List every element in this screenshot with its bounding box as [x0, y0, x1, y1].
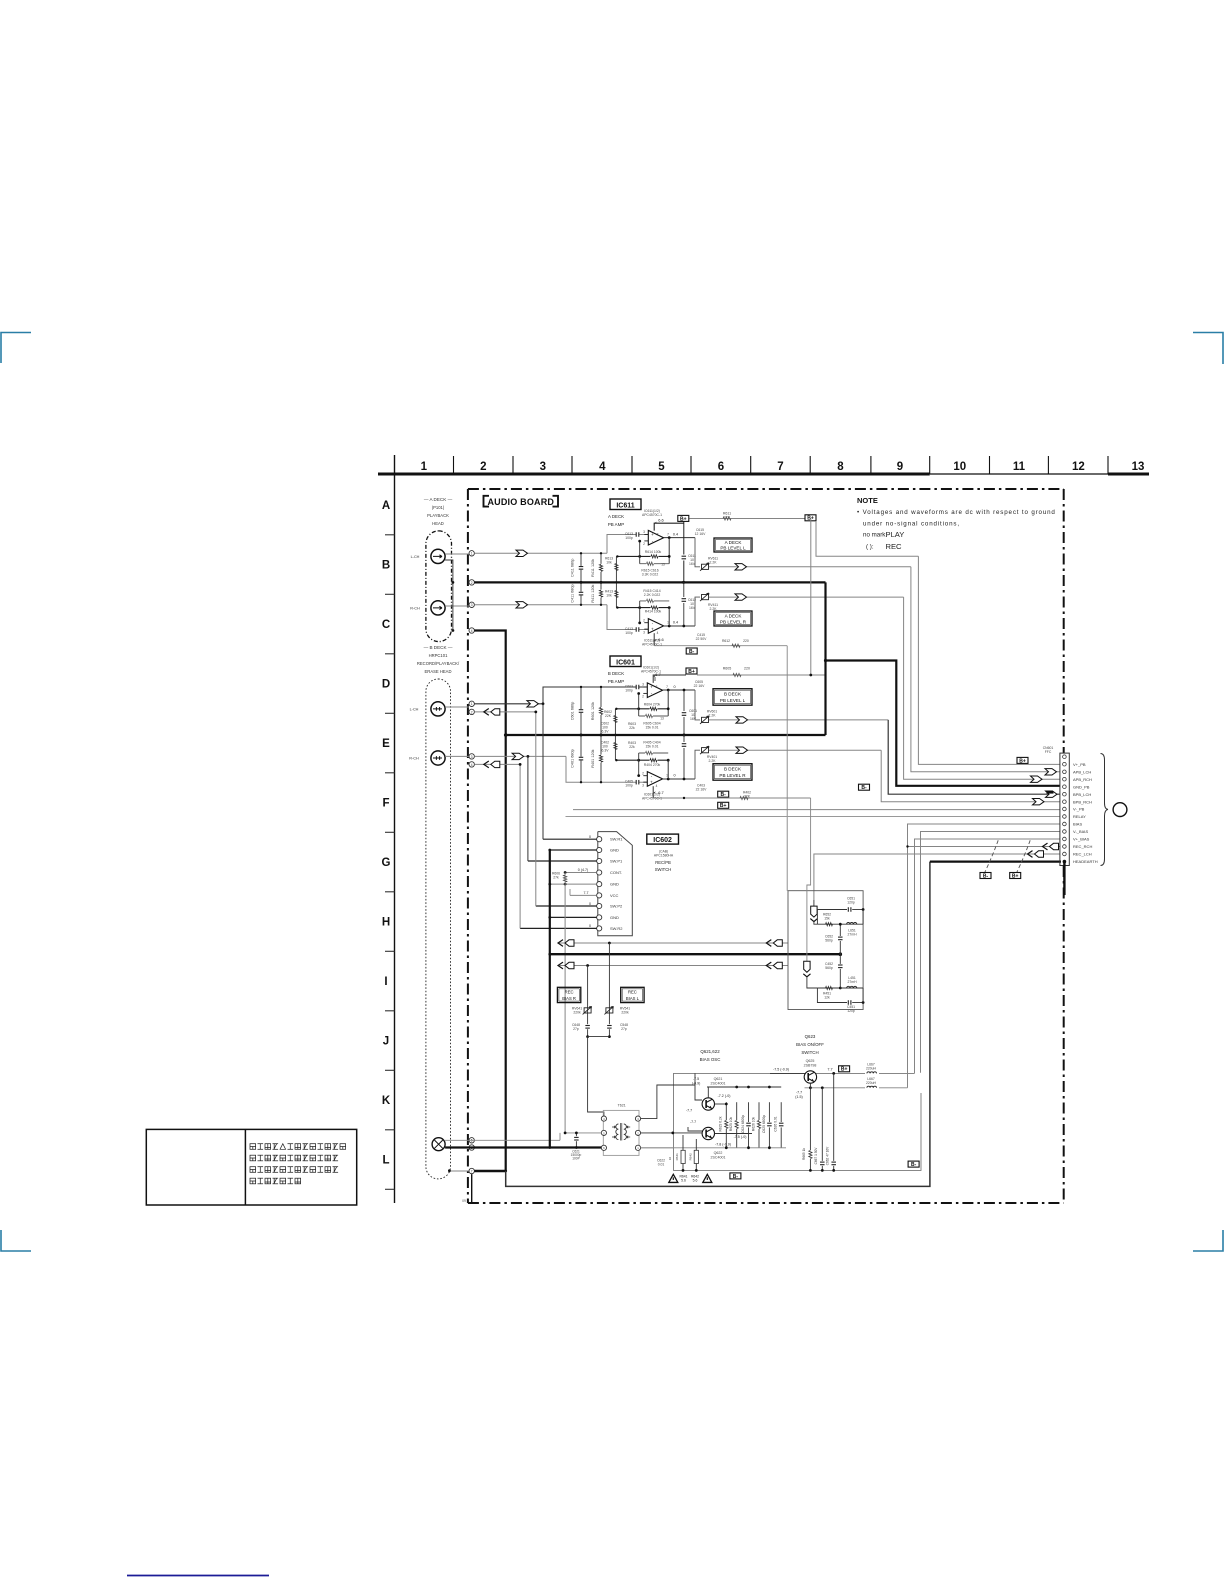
- wire REC R rail: [558, 942, 788, 944]
- svg-text:2SC4001: 2SC4001: [711, 1082, 726, 1086]
- svg-text:V+_PB: V+_PB: [1073, 762, 1086, 767]
- trimmer RV411: [695, 597, 700, 626]
- head coil R-CH (A deck): [431, 601, 445, 615]
- capacitor C601 on output: [683, 690, 685, 735]
- capacitor C613: [636, 532, 639, 537]
- resistor R411: [600, 553, 602, 582]
- wire A ground bus (bold): [474, 581, 825, 583]
- svg-text:3: 3: [643, 631, 645, 635]
- erase head coil (B deck): [432, 1138, 445, 1151]
- wire APB_RCH staircase: [904, 597, 1060, 779]
- svg-text:Q621,622: Q621,622: [700, 1049, 720, 1054]
- svg-text:10: 10: [953, 461, 966, 473]
- wire A L-ch input line: [474, 552, 607, 554]
- svg-text:R626 10k: R626 10k: [751, 1117, 755, 1131]
- svg-text:220uH: 220uH: [866, 1081, 877, 1085]
- svg-text:0: 0: [589, 924, 591, 928]
- svg-text:R601 120k: R601 120k: [591, 702, 595, 720]
- svg-text:IC611: IC611: [616, 503, 634, 510]
- inductor L651: [840, 923, 863, 925]
- capacitor C411: [580, 582, 582, 604]
- wires into IC602: [543, 838, 597, 840]
- svg-text:15k: 15k: [824, 917, 830, 921]
- capacitor C667: [820, 1161, 825, 1166]
- resistor R403b: [614, 735, 616, 760]
- wire osc top to Q623: [770, 1072, 805, 1074]
- capacitor C401: [580, 735, 582, 782]
- svg-text:B+: B+: [1019, 758, 1026, 764]
- capacitor C411: [580, 553, 582, 582]
- svg-text:SW.R1: SW.R1: [610, 837, 623, 842]
- shield arrow lower: [807, 798, 811, 961]
- wire ground rail bold: [550, 953, 841, 955]
- wire op2 V- to B-: [653, 633, 655, 646]
- B+ label near IC611: [689, 518, 805, 520]
- svg-text:L-CH: L-CH: [411, 555, 420, 559]
- svg-text:FFC: FFC: [1045, 750, 1052, 754]
- svg-text:L: L: [382, 1155, 389, 1167]
- svg-text:+: +: [650, 780, 653, 785]
- svg-text:V-_PB: V-_PB: [1073, 807, 1085, 812]
- svg-text:120p: 120p: [847, 901, 855, 905]
- svg-text:4: 4: [471, 629, 473, 633]
- wire A R-ch playback out: [709, 596, 904, 598]
- connector pins B deck head (1-4): [469, 701, 474, 706]
- svg-text:1: 1: [471, 702, 473, 706]
- svg-text:27mH: 27mH: [847, 980, 857, 984]
- wire REC_LCH net: [814, 854, 1060, 900]
- capacitor C667 branch: [821, 1088, 823, 1171]
- svg-text:C662 47 16V: C662 47 16V: [826, 1146, 830, 1165]
- svg-text:2.2K: 2.2K: [710, 561, 718, 565]
- wire erase head pin5: [445, 1139, 560, 1141]
- transformer windings: [616, 1124, 619, 1140]
- svg-text:4: 4: [471, 763, 473, 767]
- svg-text:4: 4: [599, 461, 606, 473]
- svg-text:B+: B+: [680, 516, 687, 522]
- svg-text:B-: B-: [733, 1174, 739, 1180]
- svg-text:BIAS ON/OFF: BIAS ON/OFF: [796, 1042, 824, 1047]
- svg-text:2: 2: [642, 772, 644, 776]
- B+ label below: [718, 802, 729, 808]
- svg-text:R612: R612: [722, 639, 730, 643]
- resistor R413: [615, 582, 617, 607]
- shield arrow upper: [813, 900, 815, 906]
- svg-text:B-: B-: [861, 785, 867, 791]
- svg-text:PB LEVEL R: PB LEVEL R: [719, 773, 746, 778]
- wire B R-ch head to pin 3: [445, 755, 469, 757]
- svg-text:REC/PB: REC/PB: [655, 860, 671, 865]
- svg-text:6: 6: [718, 461, 724, 473]
- svg-text:C624 6800p: C624 6800p: [741, 1115, 745, 1133]
- component R625: [736, 1102, 738, 1148]
- wire to filter down: [786, 646, 788, 891]
- svg-text:NOTE: NOTE: [857, 496, 878, 505]
- svg-text:7.7: 7.7: [584, 891, 589, 895]
- svg-text:C411 680p: C411 680p: [571, 559, 575, 577]
- svg-text:AUDIO BOARD: AUDIO BOARD: [487, 497, 554, 507]
- svg-text:560p: 560p: [825, 939, 833, 943]
- svg-text:VCC: VCC: [610, 893, 619, 898]
- svg-text:220: 220: [744, 667, 750, 671]
- B- B+ labels under connector: [980, 873, 991, 879]
- wire B L-ch playback out: [709, 719, 888, 721]
- capacitor C651: [839, 910, 841, 925]
- svg-text:R404 270k: R404 270k: [644, 763, 661, 767]
- svg-text:10k: 10k: [606, 594, 612, 598]
- IC611 label: [610, 499, 641, 510]
- board outline dash-dot border: [468, 488, 1064, 490]
- svg-text:• Voltages and waveforms are d: • Voltages and waveforms are dc with res…: [857, 509, 1056, 516]
- svg-text:— A DECK —: — A DECK —: [424, 497, 453, 502]
- resistor R451: [807, 977, 818, 988]
- svg-text:2: 2: [643, 542, 645, 546]
- svg-text:— B DECK —: — B DECK —: [424, 645, 453, 650]
- svg-text:220k: 220k: [573, 1011, 581, 1015]
- svg-text:27p: 27p: [573, 1027, 579, 1031]
- svg-text:T621: T621: [618, 1104, 626, 1108]
- svg-text:10: 10: [668, 1157, 672, 1161]
- svg-text:SW.P2: SW.P2: [610, 904, 623, 909]
- trimmer RV401: [695, 750, 700, 779]
- svg-text:R665 1k: R665 1k: [802, 1148, 806, 1160]
- svg-text:Q622: Q622: [714, 1151, 723, 1155]
- connector brace: [1101, 754, 1109, 866]
- svg-text:100p: 100p: [625, 689, 633, 693]
- svg-text:PB LEVEL R: PB LEVEL R: [720, 619, 747, 624]
- B- label right: [908, 1161, 919, 1167]
- rec arrow REC_LCH: [1028, 851, 1033, 858]
- grid row ruler line: [394, 455, 396, 1203]
- svg-text:B+: B+: [688, 669, 695, 675]
- svg-text:3: 3: [471, 603, 473, 607]
- svg-text:BIAS: BIAS: [1073, 822, 1082, 827]
- svg-text:220k: 220k: [621, 1011, 629, 1015]
- svg-text:22 16V: 22 16V: [694, 684, 705, 688]
- IC602 outline: [598, 832, 633, 936]
- warning triangle left: [669, 1174, 678, 1182]
- svg-text:R-CH: R-CH: [410, 607, 420, 611]
- svg-text:HEADEARTH: HEADEARTH: [1073, 859, 1098, 864]
- svg-text:-7.5: -7.5: [693, 1077, 699, 1081]
- svg-text:B-: B-: [983, 873, 989, 879]
- wire B R-ch rec return: [474, 763, 520, 765]
- wire op2 output: [664, 625, 695, 627]
- wire V-PB rail: [573, 809, 1060, 811]
- rec arrow B R-ch: [484, 761, 489, 768]
- svg-text:R625 10k: R625 10k: [729, 1117, 733, 1131]
- svg-text:3: 3: [471, 755, 473, 759]
- svg-text:C401 680p: C401 680p: [571, 749, 575, 768]
- svg-text:R604 270k: R604 270k: [644, 702, 661, 706]
- svg-text:BIAS R: BIAS R: [562, 996, 576, 1001]
- svg-text:220: 220: [743, 639, 749, 643]
- svg-text:22k: 22k: [629, 745, 635, 749]
- svg-text:RECORD/PLAYBACK/: RECORD/PLAYBACK/: [417, 661, 460, 666]
- rec arrow B L-ch: [484, 709, 489, 716]
- svg-text:R614 100k: R614 100k: [645, 550, 662, 554]
- capacitor C405: [636, 780, 639, 785]
- svg-text:1: 1: [421, 461, 428, 473]
- head shield stub A: [445, 560, 453, 631]
- svg-text:V-_BIAS: V-_BIAS: [1073, 829, 1088, 834]
- capacitor C652: [839, 924, 841, 954]
- capacitor C621: [575, 1133, 577, 1148]
- svg-text:(P101): (P101): [432, 505, 445, 510]
- wire B ground bus (bold): [506, 734, 826, 736]
- svg-text:B+: B+: [841, 1067, 848, 1073]
- crop mark bottom-left: [1, 1230, 31, 1251]
- resistor R601: [600, 687, 602, 735]
- svg-text:PB LEVEL L: PB LEVEL L: [720, 698, 746, 703]
- inductor L451: [840, 987, 863, 989]
- svg-text:SW.R2: SW.R2: [610, 926, 623, 931]
- svg-text:REC: REC: [565, 990, 574, 995]
- transistor Q622: [702, 1127, 714, 1139]
- wire V-BIAS net: [921, 832, 1060, 1073]
- wire VCC vertical: [564, 873, 566, 1133]
- svg-text:BPB_RCH: BPB_RCH: [1073, 799, 1092, 804]
- svg-text:Q623: Q623: [805, 1034, 816, 1039]
- trimmer RV601: [695, 690, 700, 720]
- svg-text:under no-signal conditions,: under no-signal conditions,: [863, 521, 960, 528]
- svg-text:SW.P1: SW.P1: [610, 859, 623, 864]
- wire BPB_LCH staircase: [888, 720, 1060, 794]
- svg-text:13: 13: [660, 717, 664, 721]
- wire GND_PB bold staircase: [824, 582, 826, 735]
- svg-text:ERASE HEAD: ERASE HEAD: [425, 669, 452, 674]
- svg-text:7: 7: [666, 685, 668, 689]
- svg-text:SWITCH: SWITCH: [655, 867, 672, 872]
- svg-text:B DECK: B DECK: [608, 671, 624, 676]
- svg-text:R414 100k: R414 100k: [645, 610, 662, 614]
- A deck PB level L box: [714, 538, 752, 552]
- capacitor C662: [831, 1161, 836, 1166]
- svg-text:0: 0: [589, 835, 591, 839]
- svg-text:27p: 27p: [621, 1027, 627, 1031]
- svg-text:IC601: IC601: [616, 660, 635, 667]
- svg-text:K: K: [382, 1095, 391, 1107]
- capacitor C611 on output: [683, 522, 685, 583]
- B- label on ground: [859, 784, 870, 790]
- osc top rail: [707, 1086, 781, 1088]
- wire Q623 collector down: [809, 1083, 811, 1170]
- wire APB_LCH staircase: [911, 567, 1060, 772]
- svg-text:100p: 100p: [625, 536, 633, 540]
- oscillator enclosure: [674, 1073, 922, 1170]
- capacitor C662 branch: [833, 1073, 835, 1170]
- grid column ticks: [453, 456, 455, 474]
- svg-text:3: 3: [540, 461, 546, 473]
- B- label below: [718, 791, 729, 797]
- warning triangle right: [703, 1174, 712, 1182]
- svg-text:12k: 12k: [824, 996, 830, 1000]
- capacitor C452: [839, 954, 841, 988]
- wire head shield pin7 (bold): [449, 1170, 469, 1172]
- svg-text:B DECK: B DECK: [724, 692, 742, 697]
- head coil L-CH (B deck): [431, 702, 445, 716]
- bold ground bus vertical: [549, 850, 551, 1148]
- wire RELAY rail: [566, 816, 1060, 818]
- svg-text:R642: R642: [688, 1153, 692, 1161]
- svg-text:13: 13: [1132, 461, 1145, 473]
- svg-text:R641: R641: [675, 1153, 679, 1161]
- svg-text:100p: 100p: [625, 784, 633, 788]
- svg-text:APC4570C-1: APC4570C-1: [642, 513, 662, 517]
- svg-text:8: 8: [657, 533, 659, 537]
- svg-text:4: 4: [657, 631, 659, 635]
- note chinese text: [250, 1144, 256, 1150]
- signal arrow A L-ch in: [516, 550, 528, 556]
- A deck playback head outline: [426, 531, 452, 642]
- component R626: [758, 1102, 760, 1148]
- wire T621 pin4 top: [603, 1110, 605, 1116]
- feedback resistor R614: [668, 538, 670, 564]
- svg-text:( ):: ( ):: [866, 544, 874, 551]
- svg-text:3: 3: [643, 530, 645, 534]
- trimmer RV641: [587, 966, 589, 1037]
- B- label IC611: [653, 645, 655, 647]
- svg-text:12 16V: 12 16V: [695, 532, 706, 536]
- connector pins B deck erase (5-7): [469, 1138, 474, 1143]
- svg-text:27k: 27k: [553, 876, 559, 880]
- svg-text:6.6: 6.6: [658, 518, 664, 523]
- svg-text:BPB_LCH: BPB_LCH: [1073, 792, 1091, 797]
- svg-text:PB AMP: PB AMP: [608, 522, 624, 527]
- svg-text:PB LEVEL L: PB LEVEL L: [720, 545, 746, 550]
- trimmer RV611: [695, 538, 700, 567]
- svg-text:09: 09: [462, 1199, 466, 1203]
- svg-text:SWITCH: SWITCH: [801, 1050, 818, 1055]
- resistor R642: [694, 1150, 698, 1163]
- svg-text:15k 0.01: 15k 0.01: [645, 745, 658, 749]
- svg-text:6.3V: 6.3V: [602, 749, 610, 753]
- svg-text:+: +: [651, 627, 654, 632]
- svg-text:REC: REC: [886, 542, 903, 551]
- head coil L-CH (A deck): [431, 549, 445, 563]
- svg-text:7: 7: [777, 461, 783, 473]
- B deck head outline: [426, 679, 451, 1179]
- svg-text:-7.5 (-0.9): -7.5 (-0.9): [773, 1068, 789, 1072]
- wire B L-ch head to pin 1: [445, 706, 469, 708]
- svg-text:APC4570C-1: APC4570C-1: [642, 797, 662, 801]
- svg-text:R623 6.2k: R623 6.2k: [719, 1116, 723, 1131]
- svg-text:0.01: 0.01: [658, 1163, 665, 1167]
- wire below connector: [1063, 862, 1065, 895]
- svg-text:2.2K: 2.2K: [709, 714, 717, 718]
- wire A R-ch input line: [474, 604, 607, 606]
- feedback resistor R604: [667, 690, 669, 716]
- B+ label right: [805, 515, 816, 521]
- wire B L-ch rec return: [474, 711, 535, 713]
- title AUDIO BOARD: [484, 496, 490, 507]
- capacitor C603: [636, 685, 639, 690]
- svg-text:-7.7: -7.7: [686, 1109, 692, 1113]
- svg-text:120p: 120p: [847, 1009, 855, 1013]
- svg-text:9: 9: [897, 461, 903, 473]
- B+ label upper connector: [1017, 757, 1028, 763]
- grid row ticks: [385, 534, 395, 536]
- wire BPB_RCH staircase: [881, 750, 1060, 802]
- wire B+ branch down: [810, 519, 812, 676]
- svg-text:HRPC101: HRPC101: [429, 653, 449, 658]
- svg-text:C626 0.01: C626 0.01: [774, 1116, 778, 1131]
- component C625: [768, 1102, 770, 1148]
- wire REC_RCH net: [908, 846, 1060, 848]
- wire HEADEARTH bold: [930, 860, 1061, 862]
- svg-text:C601 680p: C601 680p: [571, 702, 575, 721]
- wire1 Q623 to V+BIAS: [817, 1072, 915, 1074]
- wire B R-ch line with arrow: [474, 755, 566, 757]
- wire B R-ch playback out: [709, 749, 881, 751]
- svg-text:C625 6800p: C625 6800p: [762, 1115, 766, 1133]
- wire T621 pin5 left: [565, 1132, 601, 1134]
- svg-text:B+: B+: [1012, 873, 1019, 879]
- signal arrow BPB_LCH: [1046, 791, 1058, 797]
- svg-text:2: 2: [480, 461, 486, 473]
- svg-text:15k 0.01: 15k 0.01: [645, 726, 658, 730]
- component C626: [780, 1102, 782, 1148]
- svg-text:GND: GND: [610, 915, 619, 920]
- component C624: [748, 1102, 750, 1148]
- rec arrow REC_RCH: [1043, 843, 1048, 850]
- IC602 pins: [597, 837, 602, 842]
- svg-text:-7.7: -7.7: [796, 1091, 802, 1095]
- svg-text:G: G: [382, 857, 391, 869]
- svg-text:220uH: 220uH: [866, 1067, 877, 1071]
- wire B L-ch line with arrow: [474, 703, 543, 705]
- svg-text:C: C: [382, 619, 390, 631]
- connector CN601 pins: [1063, 755, 1067, 759]
- svg-text:2.2K: 2.2K: [709, 759, 717, 763]
- svg-text:0.4: 0.4: [673, 621, 678, 625]
- svg-text:4: 4: [656, 784, 658, 788]
- resistor R652: [817, 923, 840, 925]
- wire T621 pin2 right: [641, 1132, 702, 1134]
- svg-text:2SC4001: 2SC4001: [711, 1156, 726, 1160]
- svg-text:L-CH: L-CH: [410, 708, 419, 712]
- IC601 label: [610, 656, 641, 667]
- svg-text:2.2K 0.022: 2.2K 0.022: [644, 593, 661, 597]
- capacitor C601: [580, 687, 582, 735]
- wire B+ to connector V+PB: [816, 521, 918, 556]
- B- label osc: [730, 1173, 741, 1179]
- wire pin7 down to border: [471, 1174, 473, 1203]
- svg-text:-7.7: -7.7: [690, 1120, 696, 1124]
- head coil R-CH (B deck): [431, 751, 445, 765]
- svg-text:R411 120k: R411 120k: [591, 559, 595, 577]
- svg-text:BIAS OSC: BIAS OSC: [700, 1057, 721, 1062]
- svg-text:16V: 16V: [690, 717, 697, 721]
- resistor R401: [600, 735, 602, 782]
- op-amp IC601 1/2: [653, 675, 655, 677]
- feedback resistor R414: [640, 600, 670, 602]
- svg-text:D: D: [382, 679, 390, 691]
- bottom blue rule: [127, 1575, 269, 1577]
- svg-text:3.3K 0.022: 3.3K 0.022: [642, 573, 659, 577]
- wire op4 output: [663, 778, 695, 780]
- svg-text:APC1580HA: APC1580HA: [654, 854, 674, 858]
- wire T621 pin1 right: [641, 1147, 674, 1149]
- crop mark bottom-right: [1193, 1230, 1223, 1251]
- svg-text:A DECK: A DECK: [725, 540, 743, 545]
- capacitor C548: [607, 1024, 612, 1029]
- crop mark top-right: [1193, 333, 1223, 365]
- connector pins A deck head (1-4): [469, 551, 474, 556]
- trimmer RV541: [608, 943, 610, 1037]
- svg-text:B DECK: B DECK: [724, 767, 742, 772]
- svg-text:27mH: 27mH: [847, 933, 857, 937]
